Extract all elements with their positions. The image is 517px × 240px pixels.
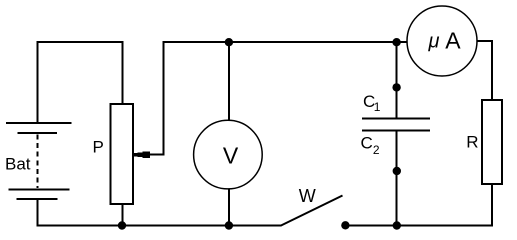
node: dot above capacitor C1 [392,83,400,91]
svg-text:R: R [466,133,478,152]
wire: resistor top vertical [491,40,493,100]
svg-text:V: V [223,143,239,169]
svg-text:1: 1 [374,100,381,114]
potentiometer P body [111,104,134,204]
wire: resistor bottom vertical [491,184,493,227]
ammeter uA circle [407,6,477,76]
battery Bat cell2 long plate [8,189,69,191]
wire: potentiometer bottom stub [121,204,123,227]
wire: bottom bus left segment [37,225,282,227]
battery Bat cell1 short plate [17,132,57,134]
node: junction dot potentiometer/bottom bus [118,221,126,229]
wire: capacitor bottom vertical [396,130,398,227]
node: switch right terminal dot [341,221,349,229]
wire: top bus [163,41,408,43]
svg-text:A: A [445,28,461,54]
switch W blade [281,196,343,226]
wire: wiper vertical up to top bus [163,41,165,156]
wire: ammeter right stub [477,40,494,42]
node: junction dot capacitor branch / top bus [392,38,400,46]
battery Bat cell2 short plate [17,198,58,200]
svg-text:W: W [299,186,316,206]
capacitor C1 C2 top plate [362,118,430,120]
svg-text:C: C [361,133,373,152]
battery Bat dashed middle [37,135,39,189]
resistor R body [482,100,502,184]
node: junction dot voltmeter branch / top bus [225,38,233,46]
wire: voltmeter top stub [228,41,230,121]
svg-text:P: P [93,138,104,157]
capacitor C1 C2 bottom plate [362,130,430,132]
wire: voltmeter bottom stub [228,189,230,227]
node: junction dot voltmeter / bottom bus [225,221,233,229]
wire: left loop right vertical down to potentiometer top [121,41,123,104]
voltmeter V circle [194,120,263,189]
svg-text:μ: μ [428,30,440,52]
wire: battery top vertical [37,41,39,123]
wire: left loop top horizontal [37,41,124,43]
battery Bat cell1 long plate [6,122,72,124]
wire: capacitor top vertical [396,41,398,119]
svg-text:Bat: Bat [5,154,31,173]
wire: wiper horizontal [148,154,165,156]
node: junction dot capacitor / bottom bus [393,221,401,229]
svg-text:2: 2 [373,143,380,157]
potentiometer wiper arrow (stepped blocky head) [134,152,150,158]
wire: battery bottom vertical [37,199,39,227]
wire: bottom bus right segment [345,225,493,227]
node: dot below capacitor C2 [393,167,401,175]
